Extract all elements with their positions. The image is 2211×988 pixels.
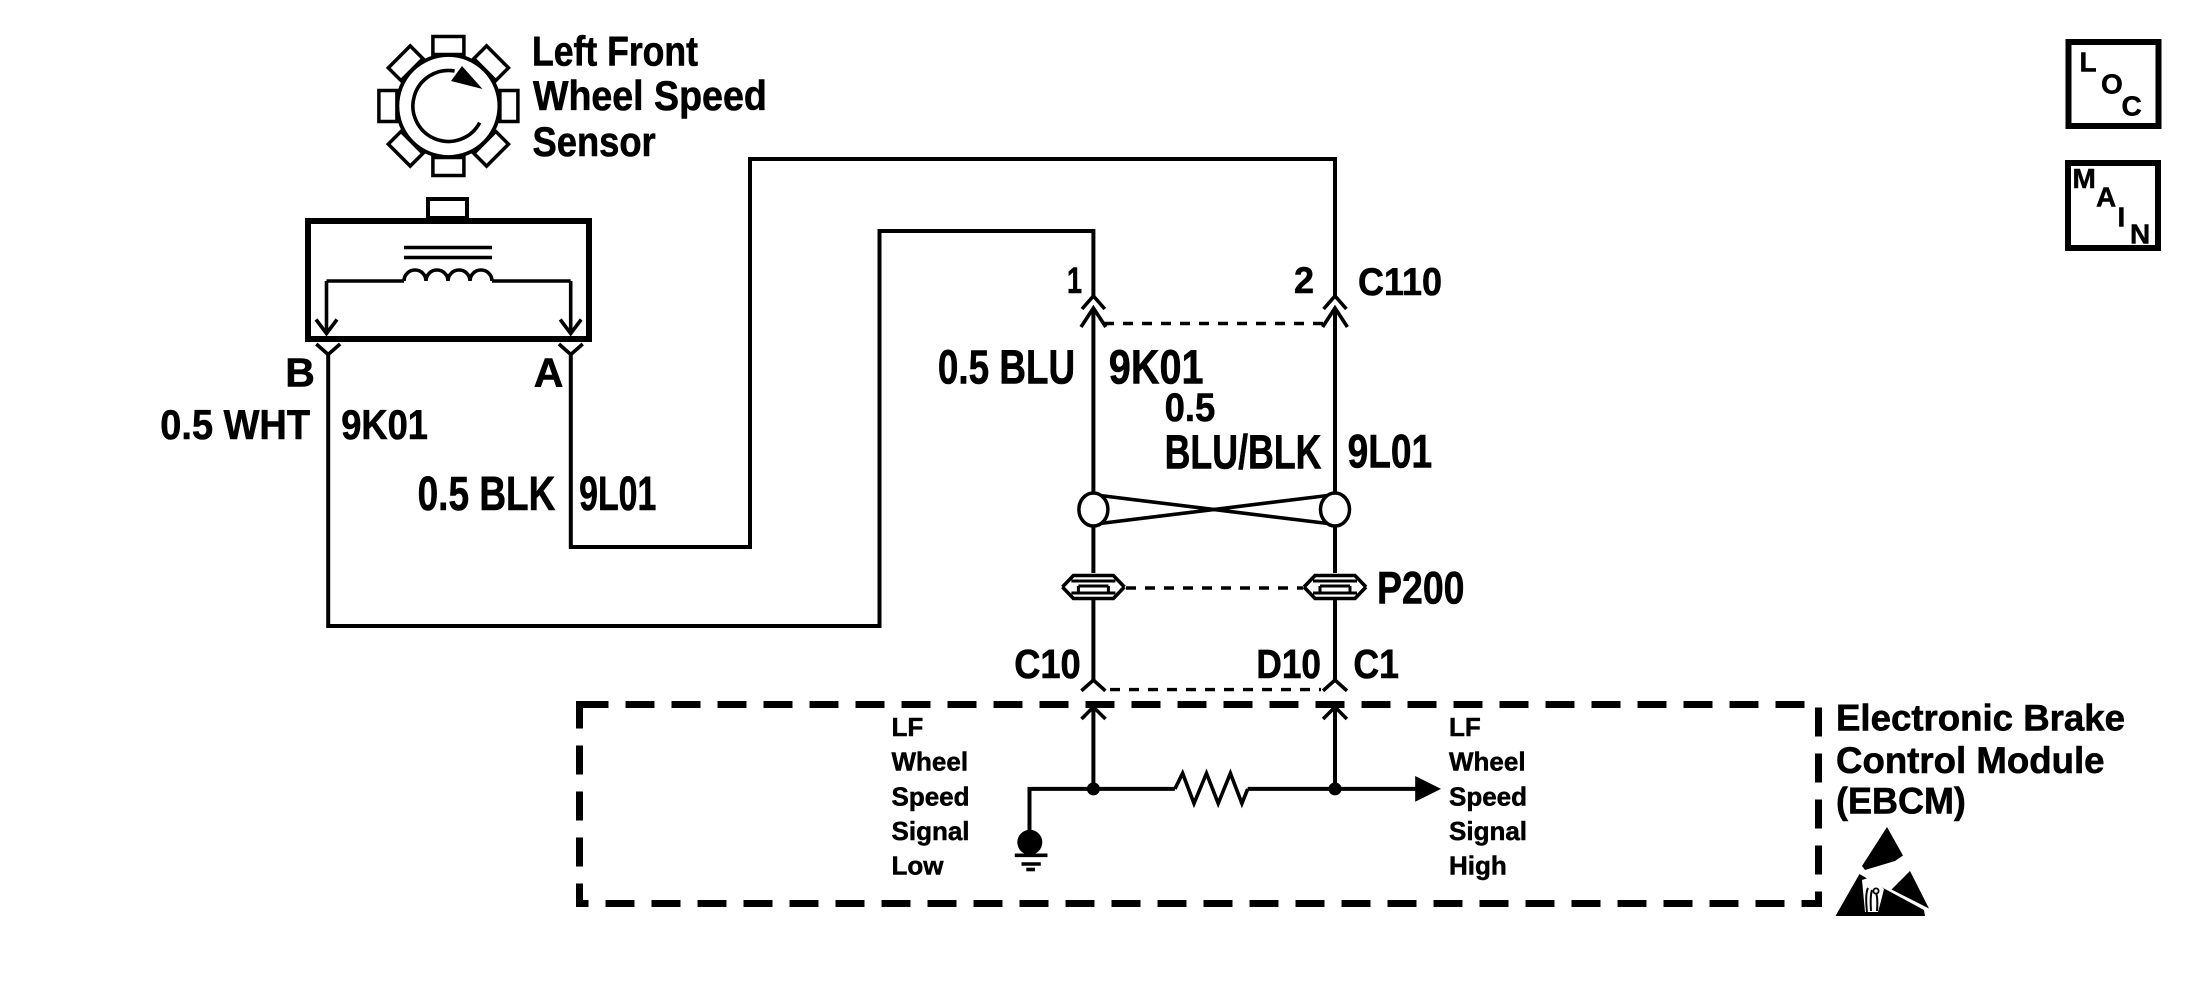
svg-text:I: I — [2118, 202, 2126, 233]
svg-text:C: C — [2122, 91, 2142, 122]
svg-text:Speed: Speed — [1449, 781, 1527, 811]
svg-text:P200: P200 — [1377, 563, 1465, 614]
svg-text:0.5 BLU: 0.5 BLU — [938, 342, 1075, 395]
svg-text:C110: C110 — [1358, 261, 1442, 304]
svg-text:High: High — [1449, 851, 1507, 881]
svg-text:Signal: Signal — [1449, 816, 1527, 846]
svg-text:Sensor: Sensor — [533, 118, 656, 165]
svg-text:D10: D10 — [1256, 641, 1321, 687]
svg-text:(EBCM): (EBCM) — [1836, 781, 1966, 822]
svg-text:C10: C10 — [1014, 641, 1080, 687]
svg-text:Signal: Signal — [892, 816, 970, 846]
svg-text:2: 2 — [1294, 260, 1314, 301]
svg-text:9L01: 9L01 — [579, 468, 656, 521]
svg-text:0.5: 0.5 — [1165, 386, 1216, 430]
svg-text:Control Module: Control Module — [1836, 740, 2105, 781]
svg-text:LF: LF — [1449, 712, 1481, 742]
svg-text:Left Front: Left Front — [532, 27, 698, 74]
svg-text:Speed: Speed — [892, 781, 970, 811]
svg-text:0.5 BLK: 0.5 BLK — [418, 468, 556, 521]
svg-text:Electronic Brake: Electronic Brake — [1836, 697, 2125, 738]
svg-text:O: O — [2101, 69, 2123, 100]
svg-text:N: N — [2130, 219, 2150, 250]
svg-text:0.5 WHT: 0.5 WHT — [160, 401, 310, 448]
svg-text:Wheel: Wheel — [892, 747, 969, 777]
svg-text:9K01: 9K01 — [341, 401, 428, 448]
svg-text:1: 1 — [1067, 260, 1082, 301]
svg-text:BLU/BLK: BLU/BLK — [1165, 427, 1322, 480]
svg-text:Wheel Speed: Wheel Speed — [533, 72, 767, 119]
svg-text:L: L — [2080, 47, 2097, 78]
svg-text:A: A — [2096, 182, 2116, 213]
svg-text:Low: Low — [892, 851, 945, 881]
svg-text:M: M — [2073, 163, 2096, 194]
svg-text:B: B — [285, 350, 315, 396]
svg-text:LF: LF — [892, 712, 924, 742]
svg-text:C1: C1 — [1353, 641, 1399, 687]
svg-text:Wheel: Wheel — [1449, 747, 1526, 777]
svg-text:A: A — [534, 350, 564, 396]
svg-text:9L01: 9L01 — [1348, 425, 1433, 478]
